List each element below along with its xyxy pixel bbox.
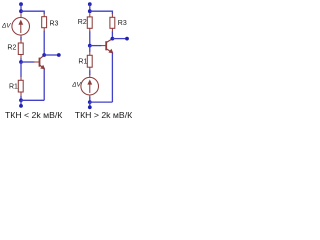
wire emitter down (left) [43, 69, 45, 101]
node F junction dot (right base node) [88, 44, 92, 48]
wire top rail (left) [21, 11, 44, 14]
current source I2 pin top [89, 75, 91, 78]
svg-text:ΔV: ΔV [71, 82, 81, 89]
wire emitter down (right) [111, 53, 113, 102]
transistor Q1 base pin [34, 61, 39, 63]
resistor R1 (left) [18, 80, 23, 92]
svg-text:ТКН > 2k мВ/К: ТКН > 2k мВ/К [75, 110, 133, 120]
current source I1 arrowhead [18, 20, 23, 25]
svg-text:R2: R2 [7, 45, 16, 52]
resistor R1 (left) pin top [20, 77, 22, 81]
svg-text:R3: R3 [50, 20, 59, 27]
svg-text:ΔV: ΔV [1, 23, 11, 30]
resistor R3 (left) pin bottom [43, 28, 45, 32]
resistor R2 (left) pin top [20, 40, 22, 44]
current source I1 pin top [20, 13, 22, 18]
wire R1 to current source (right) [89, 71, 91, 76]
wire source to ground rail (right) [89, 97, 91, 102]
resistor R2 (left) [18, 43, 23, 55]
wire base node to Q2 base [90, 45, 101, 47]
resistor R2 (right) [87, 17, 92, 28]
node E junction dot (right top rail) [88, 9, 92, 13]
wire bottom stub (left) [20, 100, 22, 106]
wire R2 to base node (left) [20, 58, 22, 62]
transistor Q2 (NPN) [106, 39, 112, 53]
current source I1 pin bottom [20, 35, 22, 38]
wire top stub (right) [89, 4, 91, 11]
wire top rail (right) [90, 11, 113, 14]
resistor R3 (right) pin bottom [111, 28, 113, 32]
current source I2 arrowhead [87, 79, 92, 84]
node D junction dot (left bottom) [19, 98, 23, 102]
wire bottom stub (right) [89, 102, 91, 107]
wire output (right) [112, 38, 127, 40]
svg-text:ТКН < 2k мВ/К: ТКН < 2k мВ/К [5, 110, 63, 120]
svg-text:R2: R2 [78, 19, 87, 26]
wire R3 to collector node (right) [111, 32, 113, 39]
resistor R2 (right) pin bottom [89, 28, 91, 32]
resistor R1 (right) pin top [89, 51, 91, 55]
node output terminal dot (right) [125, 37, 129, 41]
resistor R1 (right) pin bottom [89, 67, 91, 71]
transistor Q2 base pin [101, 45, 106, 47]
transistor Q2 emitter arrowhead [108, 49, 113, 54]
resistor R2 (right) pin top [89, 13, 91, 18]
svg-text:R1: R1 [9, 83, 18, 90]
wire base node to R1 (left) [20, 62, 22, 77]
current source I2 pin bottom [89, 95, 91, 98]
current source I1 arrow shaft [20, 22, 22, 34]
wire bottom rail (left) [21, 99, 44, 101]
transistor Q1 (NPN) [40, 55, 45, 69]
node V+ terminal dot (left top) [19, 2, 23, 6]
wire base node to Q1 base [21, 61, 34, 63]
transistor Q1 emitter arrowhead [40, 65, 45, 70]
wire output (left) [44, 54, 59, 56]
wire source to R2 (left) [20, 37, 22, 40]
current source I2 (circle) [81, 77, 99, 95]
node H junction dot (right bottom) [88, 100, 92, 104]
svg-text:R1: R1 [78, 58, 87, 65]
node output terminal dot (left) [57, 53, 61, 57]
resistor R3 (right) pin top [111, 13, 113, 17]
node B junction dot (left base node) [19, 60, 23, 64]
wire R3 to collector node (left) [43, 31, 45, 55]
resistor R1 (right) [87, 55, 92, 67]
resistor R1 (left) pin bottom [20, 92, 22, 97]
wire top stub (left) [20, 4, 22, 11]
current source I1 (circle) [12, 18, 30, 36]
node A junction dot (left top rail) [19, 9, 23, 13]
node ground terminal dot (left) [19, 104, 23, 108]
wire bottom rail (right) [90, 101, 113, 103]
current source I2 arrow shaft [89, 81, 91, 93]
svg-text:R3: R3 [118, 20, 127, 27]
resistor R3 (left) pin top [43, 13, 45, 17]
background [0, 0, 134, 120]
wire base node to R1 (right) [89, 46, 91, 52]
node G junction dot (right collector) [111, 37, 115, 41]
resistor R3 (right) [110, 17, 115, 28]
node ground terminal dot (right) [88, 105, 92, 109]
node C junction dot (left collector) [42, 53, 46, 57]
wire R2 to base node (right) [89, 32, 91, 46]
wire R1 to ground rail (left) [20, 96, 22, 100]
node V+ terminal dot (right top) [88, 2, 92, 6]
resistor R3 (left) [42, 17, 47, 28]
resistor R2 (left) pin bottom [20, 55, 22, 59]
